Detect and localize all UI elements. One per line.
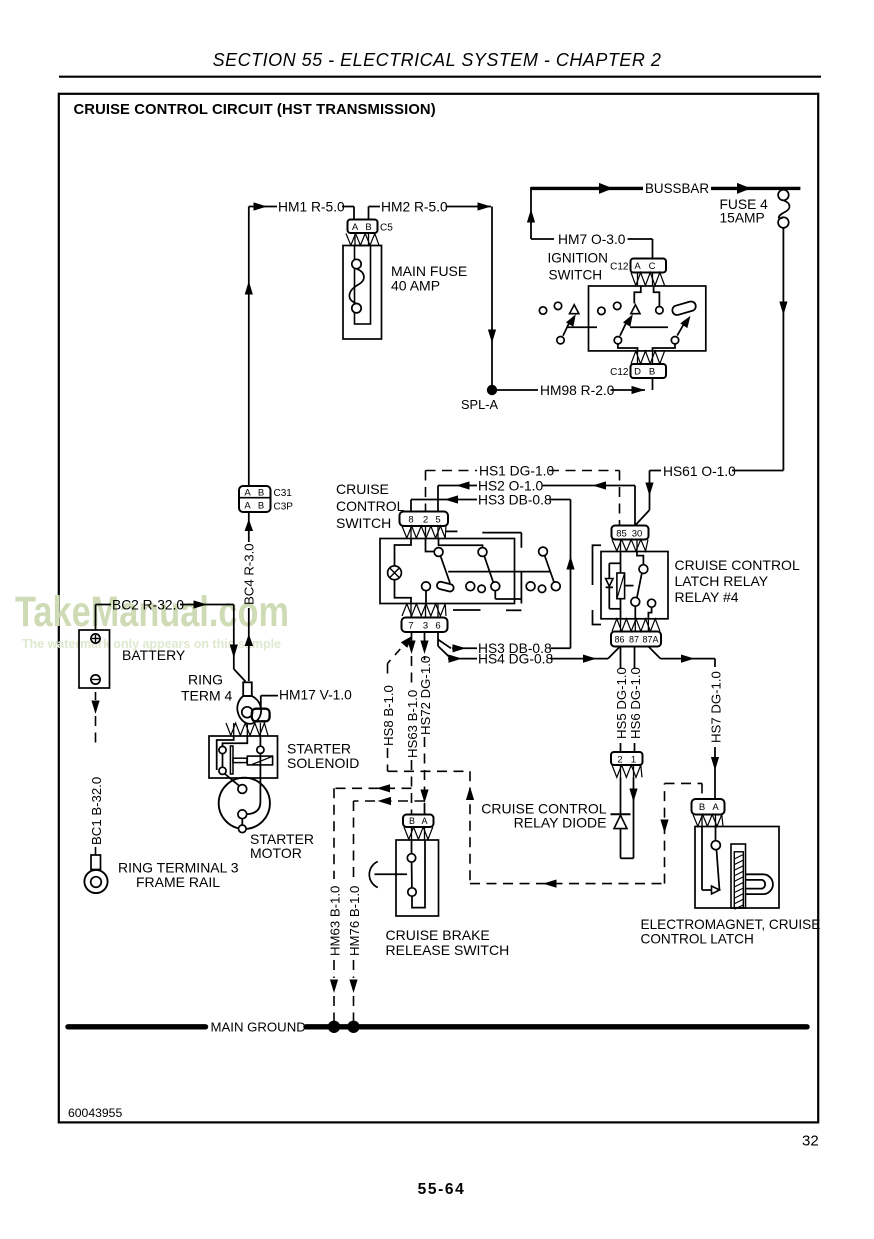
wire HS7 DG-1.0 <box>648 647 660 659</box>
svg-text:HS7 DG-1.0: HS7 DG-1.0 <box>709 671 724 743</box>
svg-text:SOLENOID: SOLENOID <box>287 755 359 771</box>
svg-text:FRAME RAIL: FRAME RAIL <box>136 874 220 890</box>
svg-text:BC2 R-32.0: BC2 R-32.0 <box>112 597 184 612</box>
wire HS6 DG-1.0 <box>634 647 636 669</box>
ignition lever right-inside <box>677 322 685 336</box>
svg-text:C12: C12 <box>610 367 629 378</box>
svg-text:HS1 DG-1.0: HS1 DG-1.0 <box>479 463 554 478</box>
solenoid lever <box>225 774 240 786</box>
connector latch relay top (85 30) <box>612 526 649 540</box>
svg-text:SWITCH: SWITCH <box>336 515 391 531</box>
svg-text:B: B <box>258 501 264 512</box>
svg-text:CRUISE CONTROL: CRUISE CONTROL <box>675 557 800 573</box>
ignition pin C jog <box>654 286 660 306</box>
ground junction HM63 <box>328 1021 340 1033</box>
wire HS72 DG-1.0 (dashed) <box>424 632 426 641</box>
svg-text:TERM 4: TERM 4 <box>181 688 233 704</box>
svg-text:HS72 DG-1.0: HS72 DG-1.0 <box>418 656 433 735</box>
svg-text:CRUISE: CRUISE <box>336 481 389 497</box>
wire from HM2 down to SPL-A <box>491 207 493 391</box>
svg-text:BATTERY: BATTERY <box>122 647 186 663</box>
ignition lever left-outside <box>563 321 570 336</box>
svg-text:RELEASE SWITCH: RELEASE SWITCH <box>386 942 510 958</box>
svg-text:87: 87 <box>629 635 639 645</box>
svg-text:87A: 87A <box>642 635 658 645</box>
svg-text:2: 2 <box>423 515 428 526</box>
svg-text:BC4 R-3.0: BC4 R-3.0 <box>242 543 257 605</box>
svg-text:HM2 R-5.0: HM2 R-5.0 <box>381 200 448 215</box>
svg-text:MOTOR: MOTOR <box>250 845 302 861</box>
svg-text:A: A <box>244 488 251 499</box>
connector C31 / C3P <box>239 486 271 512</box>
svg-text:HM63 B-1.0: HM63 B-1.0 <box>328 886 343 956</box>
svg-text:HS5 DG-1.0: HS5 DG-1.0 <box>614 667 629 739</box>
wire HS5 DG-1.0 <box>620 647 622 669</box>
crimp C12 bottom <box>631 351 665 364</box>
brake pedal lever <box>369 862 377 888</box>
svg-text:HS4 DG-0.8: HS4 DG-0.8 <box>478 651 553 666</box>
svg-text:HS61 O-1.0: HS61 O-1.0 <box>663 464 736 479</box>
svg-text:B: B <box>409 816 415 826</box>
svg-text:B: B <box>365 222 371 233</box>
electromagnet coil horseshoe <box>746 874 773 894</box>
ignition pin A jog <box>634 286 641 304</box>
wire HM1 R-5.0 <box>249 206 277 208</box>
svg-text:LATCH RELAY: LATCH RELAY <box>675 573 769 589</box>
fuse F4 element <box>778 190 789 201</box>
connector relay diode (2 1) <box>611 752 643 765</box>
electromagnet contact B <box>701 827 703 891</box>
header rule <box>59 76 821 78</box>
wire HM98 R-2.0 <box>497 389 538 391</box>
connector cruise switch bottom (7 3 6) <box>402 618 448 633</box>
svg-text:CRUISE CONTROL CIRCUIT (HST TR: CRUISE CONTROL CIRCUIT (HST TRANSMISSION… <box>74 102 436 118</box>
wire HS2 O-1.0 <box>437 486 439 512</box>
svg-text:D: D <box>634 367 641 378</box>
crimp C5 <box>346 234 379 246</box>
svg-text:5: 5 <box>435 515 440 526</box>
svg-text:1: 1 <box>631 755 636 766</box>
svg-text:A: A <box>634 261 641 272</box>
wire bus from HM1 corner down to connector C31 <box>248 207 250 487</box>
connector electromagnet (B A) <box>692 799 725 815</box>
svg-text:15AMP: 15AMP <box>720 211 765 226</box>
wire BC1 B-32.0 <box>95 692 97 700</box>
svg-text:6: 6 <box>435 621 440 632</box>
wire HS8 path to electromagnet (dashed) <box>664 783 666 883</box>
wire HM7 O-3.0 <box>531 238 554 240</box>
svg-text:RING: RING <box>188 672 223 688</box>
wire HM63 B-1.0 (dashed) <box>333 788 335 879</box>
svg-text:C12: C12 <box>610 262 629 273</box>
electromagnet armature <box>731 844 746 908</box>
crimp cruise switch top <box>402 526 446 538</box>
svg-text:2: 2 <box>617 755 622 766</box>
svg-text:8: 8 <box>408 515 413 526</box>
svg-text:IGNITION: IGNITION <box>548 251 608 266</box>
svg-text:86: 86 <box>614 635 624 645</box>
wire fuse4 down to HS61 <box>782 228 784 471</box>
svg-text:60043955: 60043955 <box>68 1106 122 1120</box>
svg-text:RELAY DIODE: RELAY DIODE <box>514 815 607 831</box>
wire HM76 branch (dashed) <box>354 800 425 802</box>
crimp starter solenoid <box>226 723 268 736</box>
cruise switch box <box>380 539 515 604</box>
crimp latch relay bottom <box>612 619 660 632</box>
brake switch box <box>396 840 439 916</box>
svg-text:B: B <box>699 802 705 813</box>
svg-text:55-64: 55-64 <box>418 1181 466 1198</box>
svg-text:ELECTROMAGNET, CRUISE: ELECTROMAGNET, CRUISE <box>641 917 821 932</box>
svg-text:MAIN GROUND: MAIN GROUND <box>211 1020 306 1035</box>
latch relay brackets <box>593 545 602 585</box>
svg-text:SWITCH: SWITCH <box>549 268 603 283</box>
svg-text:HM76 B-1.0: HM76 B-1.0 <box>347 886 362 956</box>
ignition contacts inside <box>598 307 605 314</box>
connector latch relay bottom (86 87 87A) <box>611 632 661 647</box>
svg-text:HS6 DG-1.0: HS6 DG-1.0 <box>628 667 643 739</box>
svg-text:85: 85 <box>616 529 627 540</box>
brake switch contacts <box>411 840 413 854</box>
svg-text:HS8 B-1.0: HS8 B-1.0 <box>381 685 396 746</box>
svg-text:CONTROL LATCH: CONTROL LATCH <box>641 932 754 947</box>
ignition pin D jog <box>618 344 638 351</box>
crimp relay diode <box>612 765 642 777</box>
latch relay lever <box>637 573 642 597</box>
crimp cruise switch bottom <box>402 604 446 616</box>
crimp latch relay top <box>612 540 648 552</box>
svg-text:C3P: C3P <box>274 502 294 513</box>
svg-text:HM98 R-2.0: HM98 R-2.0 <box>540 383 615 398</box>
svg-text:HS3 DB-0.8: HS3 DB-0.8 <box>478 492 552 507</box>
latch relay contact 87 <box>631 597 640 606</box>
battery B1 <box>79 630 110 688</box>
svg-text:40 AMP: 40 AMP <box>391 278 440 294</box>
solenoid internals <box>217 736 234 770</box>
svg-text:30: 30 <box>632 529 643 540</box>
ignition contact triangle (inside) <box>631 305 640 314</box>
ground junction HM76 <box>347 1021 359 1033</box>
svg-text:HM17 V-1.0: HM17 V-1.0 <box>279 688 352 703</box>
node SPL-A <box>487 385 497 395</box>
svg-text:RELAY #4: RELAY #4 <box>675 589 739 605</box>
wire HM76 B-1.0 (dashed) <box>353 801 355 879</box>
svg-text:BUSSBAR: BUSSBAR <box>645 181 709 196</box>
wire diode return <box>633 778 635 859</box>
svg-text:C5: C5 <box>380 223 393 234</box>
svg-text:A: A <box>712 802 719 813</box>
wire HS4 DG-0.8 <box>438 646 451 659</box>
connector C5 <box>348 220 378 234</box>
bussbar <box>531 187 643 190</box>
svg-text:C31: C31 <box>274 488 293 499</box>
wire HS3 riser <box>570 500 572 649</box>
svg-text:7: 7 <box>408 621 413 632</box>
latch relay coil <box>620 552 622 574</box>
svg-text:CONTROL: CONTROL <box>336 498 405 514</box>
wire HS61 O-1.0 <box>732 470 783 472</box>
diagram frame <box>59 94 818 1123</box>
cruise switch pole 2 <box>439 539 483 548</box>
wire HS3 DB-0.8 (bottom) <box>437 632 439 646</box>
latch relay contact 87A <box>648 599 656 607</box>
main ground bus <box>68 1024 206 1029</box>
wire HM17 V-1.0 <box>260 696 262 709</box>
starter motor M <box>219 778 270 829</box>
svg-text:A: A <box>421 816 427 826</box>
wire BC4 R-3.0 <box>248 512 250 542</box>
cruise switch gang line <box>448 571 550 573</box>
svg-text:B: B <box>258 488 264 499</box>
cruise switch pole 1 <box>426 539 435 552</box>
svg-text:A: A <box>352 222 359 233</box>
ignition key <box>671 300 697 316</box>
electromagnet box <box>695 827 779 909</box>
main fuse F1 body <box>343 246 382 340</box>
svg-text:SPL-A: SPL-A <box>461 397 498 412</box>
cruise switch lamp <box>395 539 412 567</box>
ignition switch box <box>589 286 706 351</box>
svg-text:C: C <box>649 261 656 272</box>
wire HS1 stub to pin 2 <box>425 471 427 512</box>
svg-text:SECTION 55 - ELECTRICAL SYSTEM: SECTION 55 - ELECTRICAL SYSTEM - CHAPTER… <box>213 50 662 70</box>
ring terminal 4 <box>243 682 252 696</box>
diode D1 <box>620 778 622 814</box>
ignition lever left-inside <box>620 321 627 336</box>
svg-text:BC1 B-32.0: BC1 B-32.0 <box>89 777 104 845</box>
connector HM17 <box>252 709 270 722</box>
ignition side contacts (left) <box>539 307 546 314</box>
crimp C12 top <box>631 273 665 286</box>
cruise switch gang brackets <box>446 530 458 532</box>
svg-text:HM1 R-5.0: HM1 R-5.0 <box>278 200 345 215</box>
svg-text:HS2 O-1.0: HS2 O-1.0 <box>478 478 544 493</box>
ring terminal 3 <box>91 855 101 870</box>
latch relay mech link <box>625 585 634 587</box>
svg-text:32: 32 <box>802 1133 819 1150</box>
ignition pin B jog <box>653 344 676 351</box>
connector brake switch (B A) <box>403 815 434 828</box>
svg-text:CRUISE BRAKE: CRUISE BRAKE <box>386 927 490 943</box>
wire to bussbar <box>530 187 532 239</box>
crimp electromagnet <box>693 815 723 827</box>
wire HS1 DG-1.0 (dashed) <box>426 470 478 472</box>
svg-text:HM7 O-3.0: HM7 O-3.0 <box>558 232 626 247</box>
cruise switch pole 3 (outside) <box>539 547 548 556</box>
latch relay box <box>601 552 668 619</box>
wire HM2 R-5.0 <box>368 207 370 220</box>
main fuse element <box>352 259 361 268</box>
svg-text:B: B <box>649 367 655 378</box>
wire BC2 R-32.0 <box>95 605 97 631</box>
svg-text:3: 3 <box>423 621 428 632</box>
crimp brake switch <box>404 827 433 839</box>
starter solenoid box <box>209 736 278 778</box>
wire HS3 DB-0.8 (top) <box>410 500 412 512</box>
latch relay contact 30 <box>637 552 643 565</box>
connector cruise switch top (8 2 5) <box>400 512 449 527</box>
wire HM63 branch (dashed) <box>334 787 412 789</box>
ignition throw lines <box>630 326 668 328</box>
wire HS8 B-1.0 (dashed) <box>395 638 410 655</box>
electromagnet contact A <box>715 827 717 841</box>
wire HS63 B-1.0 (dashed) <box>411 632 413 641</box>
svg-text:A: A <box>244 501 251 512</box>
latch relay coil diode <box>609 562 620 564</box>
